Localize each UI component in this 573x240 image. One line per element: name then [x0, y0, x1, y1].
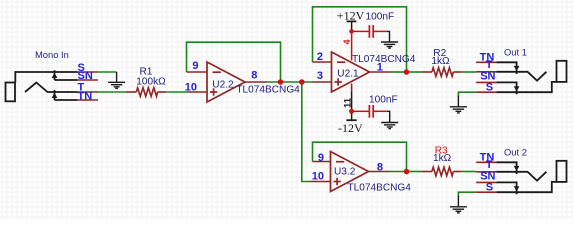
- wire R1 to pin10: [166, 91, 187, 93]
- arrow SN->S Out2: [514, 186, 520, 191]
- U2.2 plus: [210, 88, 217, 95]
- svg-text:9: 9: [318, 152, 324, 164]
- svg-text:S: S: [486, 81, 493, 93]
- junction U2.2 out: [278, 79, 284, 85]
- svg-text:1kΩ: 1kΩ: [433, 153, 452, 164]
- op-amp U2.2 triangle: [207, 62, 245, 102]
- op-amp U3.2 triangle: [331, 152, 369, 192]
- wire S to ground: [98, 71, 117, 73]
- wire U3.2 out: [390, 171, 407, 173]
- svg-text:1: 1: [377, 61, 383, 73]
- capacitor C1: [354, 25, 387, 38]
- pin 11 U2.1: [351, 84, 353, 92]
- svg-text:100kΩ: 100kΩ: [136, 76, 166, 87]
- U2.2 minus: [213, 71, 221, 73]
- ground GND2: [381, 31, 398, 48]
- svg-text:U2.2: U2.2: [212, 79, 234, 90]
- svg-text:T: T: [486, 159, 493, 171]
- wire junction to R2: [407, 71, 422, 73]
- wire R2 to Out1 T: [461, 71, 476, 73]
- ground GND1: [108, 72, 125, 88]
- svg-text:+12V: +12V: [337, 9, 365, 23]
- jack J3 Out2 body: [496, 161, 566, 195]
- op-amp U2.1 triangle: [332, 52, 370, 92]
- resistor R2: [421, 68, 461, 77]
- svg-text:Mono In: Mono In: [35, 49, 69, 60]
- svg-text:U3.2: U3.2: [334, 167, 356, 178]
- junction U2.1 out: [404, 69, 410, 75]
- svg-text:8: 8: [377, 161, 383, 173]
- wire feedback U3.2: [313, 142, 407, 171]
- wire node down to U3.2: [302, 82, 311, 182]
- svg-text:3: 3: [317, 70, 323, 82]
- U2.1 plus: [335, 78, 342, 85]
- ground GND5: [450, 196, 467, 213]
- svg-text:8: 8: [251, 70, 257, 82]
- jack J2 Out1 body: [496, 61, 566, 95]
- svg-text:S: S: [486, 181, 493, 193]
- svg-text:TL074BCNG4: TL074BCNG4: [352, 54, 416, 65]
- +12V symbol: [347, 20, 357, 22]
- svg-text:1kΩ: 1kΩ: [431, 56, 450, 67]
- svg-text:TN: TN: [78, 91, 93, 103]
- U3.2 minus: [336, 161, 344, 163]
- U3.2 plus: [334, 178, 341, 185]
- svg-text:U2.1: U2.1: [337, 68, 359, 79]
- jack J2 Out1 pins TN T SN S: [476, 62, 496, 92]
- wire Out1 S to ground: [458, 92, 476, 96]
- svg-text:SN: SN: [78, 70, 93, 82]
- arrow SN->S: [52, 73, 58, 78]
- junction +12V: [349, 29, 354, 34]
- svg-text:4: 4: [342, 39, 352, 44]
- resistor R3: [421, 167, 461, 176]
- wire T to R1: [98, 91, 126, 93]
- wire feedback U2.1: [313, 7, 407, 72]
- wire R3 to Out2 T: [461, 171, 476, 173]
- svg-text:100nF: 100nF: [369, 94, 398, 105]
- svg-text:TL074BCNG4: TL074BCNG4: [348, 183, 412, 194]
- -12V symbol: [346, 119, 356, 121]
- svg-text:10: 10: [185, 82, 197, 94]
- jack J1 pins S SN T TN: [78, 72, 99, 100]
- junction U3.2 out: [404, 169, 410, 175]
- svg-text:TL074BCNG4: TL074BCNG4: [236, 84, 300, 95]
- svg-text:11: 11: [343, 97, 354, 108]
- wire U2.1 out: [391, 71, 407, 73]
- svg-text:T: T: [486, 59, 493, 71]
- wire feedback U2.2: [187, 42, 281, 82]
- arrow TN->T: [52, 93, 58, 98]
- junction -12V: [349, 109, 354, 114]
- jack J3 Out2 pins TN T SN S: [476, 162, 496, 192]
- wire Out2 S to ground: [458, 192, 476, 196]
- svg-text:Out 1: Out 1: [504, 46, 527, 57]
- op-amp U2.2 pins 9 10 8: [187, 72, 267, 92]
- arrow TN->T: [514, 66, 520, 71]
- pin 4 U2.1: [351, 31, 353, 60]
- op-amp U3.2 pins 9 10 8: [311, 162, 391, 182]
- svg-text:2: 2: [317, 51, 323, 63]
- ground GND3: [381, 111, 398, 128]
- ground GND4: [450, 96, 467, 113]
- svg-text:-12V: -12V: [338, 121, 363, 135]
- wire U2.2 out: [267, 81, 312, 83]
- op-amp U2.1 pins 2 3 1: [312, 62, 391, 82]
- arrow TN->T Out2: [514, 166, 520, 171]
- U2.1 minus: [337, 61, 345, 63]
- junction node to U2.1 pin3: [299, 79, 305, 85]
- capacitor C2: [354, 105, 387, 118]
- svg-text:Out 2: Out 2: [504, 146, 527, 157]
- arrow SN->S: [514, 86, 520, 91]
- svg-text:100nF: 100nF: [366, 12, 395, 23]
- svg-text:10: 10: [312, 171, 324, 183]
- jack J1 Mono In body: [6, 70, 78, 101]
- wire junction to R3: [407, 171, 422, 173]
- resistor R1: [126, 88, 166, 97]
- svg-text:9: 9: [192, 60, 198, 72]
